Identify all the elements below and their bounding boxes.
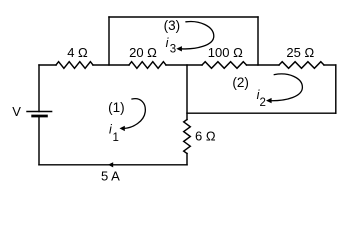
wire right edge of loop 2 bbox=[335, 65, 337, 113]
wire top box right edge bbox=[257, 17, 259, 65]
current source arrow 5 A on bottom wire bbox=[108, 162, 113, 167]
resistor R5 6 Ohm vertical zigzag bbox=[184, 120, 191, 154]
wire between R1 and R2 (node at top box left) bbox=[93, 64, 129, 66]
loop (1) mesh current arc bbox=[124, 99, 146, 129]
wire left edge lower (below battery) bbox=[38, 117, 40, 165]
resistor R2 20 Ohm zigzag bbox=[129, 62, 166, 69]
voltage source V battery long plate bbox=[27, 111, 52, 113]
voltage source V battery short thick plate bbox=[33, 115, 47, 118]
svg-text:5 A: 5 A bbox=[101, 169, 120, 184]
wire top-right segment to right edge bbox=[324, 64, 336, 66]
wire middle vertical branch upper part bbox=[186, 65, 188, 120]
wire between R3 and R4 (node at top box right) bbox=[247, 64, 280, 66]
arrowhead of loop (3) current i3 bbox=[176, 46, 182, 51]
wire bottom of loop 2 bbox=[187, 112, 336, 114]
arrowhead of loop (1) current i1 bbox=[120, 126, 125, 131]
svg-text:20 Ω: 20 Ω bbox=[129, 45, 157, 60]
loop (3) mesh current arc bbox=[181, 22, 214, 49]
wire top box left edge bbox=[108, 17, 110, 65]
wire top-left segment from battery corner to R1 bbox=[39, 64, 56, 66]
svg-text:25 Ω: 25 Ω bbox=[286, 45, 314, 60]
arrowhead of loop (2) current i2 bbox=[266, 98, 272, 103]
svg-text:(3): (3) bbox=[164, 18, 181, 33]
svg-text:(1): (1) bbox=[108, 100, 125, 115]
wire top box top edge bbox=[109, 16, 258, 18]
wire between R2 and R3 (node at middle branch) bbox=[166, 64, 202, 66]
resistor R1 4 Ohm zigzag bbox=[56, 62, 93, 69]
svg-text:V: V bbox=[12, 104, 21, 119]
wire bottom of loop 1 bbox=[39, 164, 187, 166]
svg-text:4 Ω: 4 Ω bbox=[67, 45, 88, 60]
svg-text:3: 3 bbox=[170, 44, 176, 56]
loop (2) mesh current arc bbox=[269, 74, 303, 101]
svg-text:6 Ω: 6 Ω bbox=[195, 129, 216, 144]
resistor R4 25 Ohm zigzag bbox=[279, 62, 324, 69]
resistor R3 100 Ohm zigzag bbox=[202, 62, 247, 69]
svg-text:1: 1 bbox=[113, 132, 119, 144]
wire middle vertical branch lower part bbox=[186, 154, 188, 165]
svg-text:(2): (2) bbox=[232, 75, 249, 90]
wire left edge upper (above battery) bbox=[38, 65, 40, 112]
svg-text:2: 2 bbox=[260, 97, 266, 109]
svg-text:100 Ω: 100 Ω bbox=[208, 45, 243, 60]
